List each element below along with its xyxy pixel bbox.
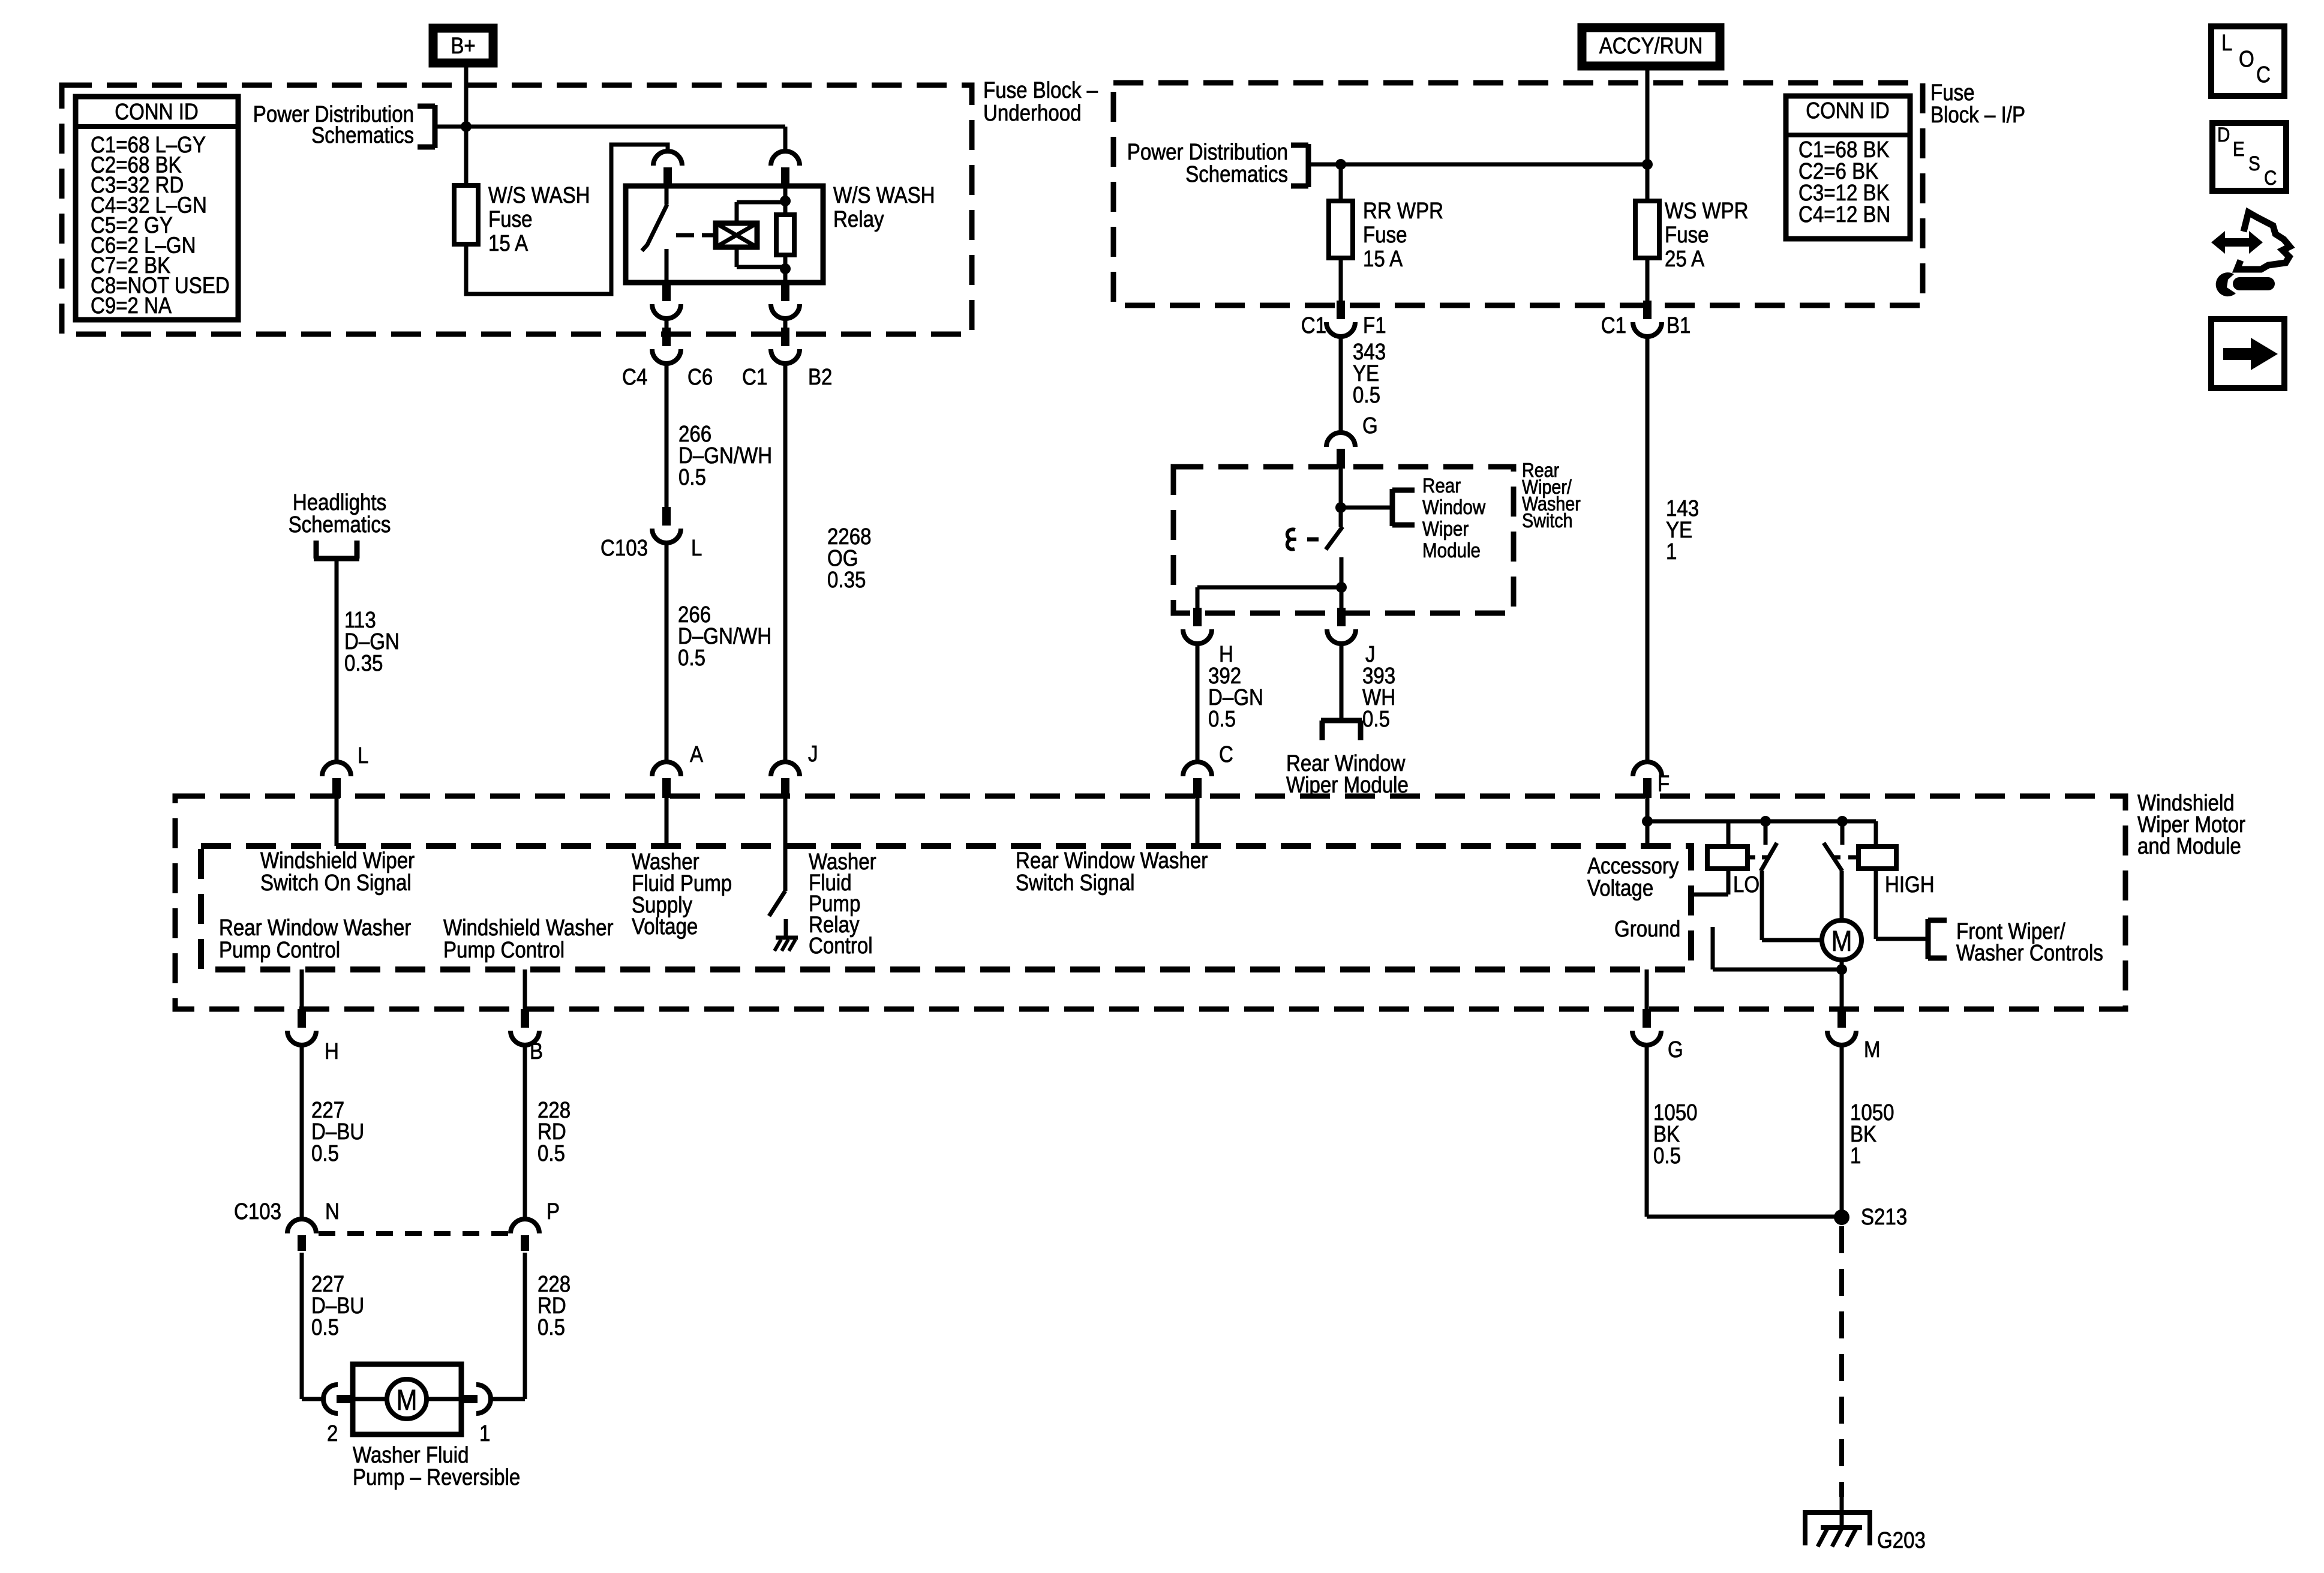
svg-text:W/S WASH: W/S WASH bbox=[833, 182, 935, 208]
svg-text:A: A bbox=[690, 742, 703, 767]
svg-text:M: M bbox=[1831, 924, 1852, 957]
svg-text:C: C bbox=[2256, 62, 2271, 88]
svg-text:C4=12 BN: C4=12 BN bbox=[1798, 202, 1890, 227]
svg-text:Ground: Ground bbox=[1614, 916, 1680, 942]
svg-text:0.5: 0.5 bbox=[1353, 382, 1380, 408]
svg-text:0.5: 0.5 bbox=[678, 645, 705, 671]
svg-text:RR WPR: RR WPR bbox=[1363, 198, 1443, 224]
svg-text:Switch: Switch bbox=[1522, 509, 1572, 532]
svg-text:Schematics: Schematics bbox=[1185, 161, 1288, 187]
svg-text:C103: C103 bbox=[600, 535, 648, 561]
svg-text:Voltage: Voltage bbox=[1587, 875, 1653, 901]
svg-text:C1: C1 bbox=[742, 364, 767, 390]
svg-text:Relay: Relay bbox=[833, 206, 884, 232]
svg-text:Schematics: Schematics bbox=[289, 512, 391, 538]
svg-text:Fuse: Fuse bbox=[1363, 222, 1407, 248]
svg-text:Block – I/P: Block – I/P bbox=[1930, 102, 2025, 128]
svg-text:and Module: and Module bbox=[2137, 833, 2241, 859]
svg-text:D: D bbox=[2217, 123, 2230, 146]
svg-text:L: L bbox=[2221, 30, 2232, 56]
svg-text:M: M bbox=[397, 1383, 418, 1416]
svg-text:0.5: 0.5 bbox=[678, 464, 706, 490]
svg-text:C9=2 NA: C9=2 NA bbox=[91, 293, 172, 319]
svg-text:J: J bbox=[808, 741, 818, 767]
svg-text:Control: Control bbox=[809, 933, 873, 959]
svg-text:L: L bbox=[691, 535, 702, 561]
svg-text:G: G bbox=[1362, 413, 1378, 439]
svg-text:H: H bbox=[325, 1038, 339, 1064]
svg-text:0.5: 0.5 bbox=[1362, 706, 1390, 732]
svg-text:M: M bbox=[1864, 1037, 1881, 1062]
svg-text:15 A: 15 A bbox=[488, 230, 528, 256]
svg-text:Fuse: Fuse bbox=[488, 206, 532, 232]
svg-text:1: 1 bbox=[479, 1421, 490, 1446]
svg-text:B1: B1 bbox=[1667, 313, 1691, 338]
svg-text:Fuse: Fuse bbox=[1665, 222, 1709, 248]
svg-text:B: B bbox=[530, 1038, 543, 1064]
svg-text:1: 1 bbox=[1850, 1143, 1861, 1169]
svg-text:0.35: 0.35 bbox=[344, 650, 383, 676]
svg-text:G203: G203 bbox=[1877, 1527, 1926, 1553]
svg-text:F: F bbox=[1658, 771, 1670, 797]
svg-text:HIGH: HIGH bbox=[1885, 872, 1935, 897]
svg-text:15 A: 15 A bbox=[1363, 246, 1403, 272]
svg-text:0.5: 0.5 bbox=[1653, 1143, 1681, 1169]
svg-text:0.5: 0.5 bbox=[311, 1140, 339, 1166]
svg-text:O: O bbox=[2239, 46, 2254, 72]
svg-text:ACCY/RUN: ACCY/RUN bbox=[1599, 33, 1703, 59]
svg-text:Switch Signal: Switch Signal bbox=[1016, 870, 1134, 896]
svg-text:0.35: 0.35 bbox=[827, 567, 866, 593]
svg-text:0.5: 0.5 bbox=[538, 1140, 565, 1166]
svg-text:L: L bbox=[358, 743, 368, 769]
svg-text:Fuse Block –: Fuse Block – bbox=[983, 77, 1098, 103]
svg-text:E: E bbox=[2233, 137, 2245, 160]
svg-text:Wiper: Wiper bbox=[1422, 517, 1469, 540]
svg-text:N: N bbox=[325, 1199, 340, 1224]
svg-text:C4: C4 bbox=[622, 364, 647, 390]
svg-text:B+: B+ bbox=[451, 33, 475, 59]
svg-text:S: S bbox=[2248, 152, 2260, 175]
svg-text:Pump Control: Pump Control bbox=[443, 937, 565, 963]
svg-text:Switch On Signal: Switch On Signal bbox=[260, 870, 412, 896]
svg-text:Underhood: Underhood bbox=[983, 100, 1082, 126]
svg-text:F1: F1 bbox=[1363, 313, 1386, 338]
svg-text:S213: S213 bbox=[1861, 1204, 1907, 1230]
svg-text:C: C bbox=[2264, 166, 2277, 189]
svg-text:Voltage: Voltage bbox=[632, 914, 698, 939]
svg-text:Pump – Reversible: Pump – Reversible bbox=[353, 1464, 520, 1490]
svg-text:C1: C1 bbox=[1301, 313, 1326, 338]
svg-text:C1: C1 bbox=[1601, 313, 1626, 338]
svg-text:B2: B2 bbox=[808, 364, 832, 390]
svg-text:LO: LO bbox=[1733, 872, 1759, 897]
svg-text:0.5: 0.5 bbox=[538, 1314, 565, 1340]
svg-text:C: C bbox=[1219, 742, 1233, 767]
svg-text:G: G bbox=[1668, 1037, 1683, 1062]
svg-text:Module: Module bbox=[1422, 539, 1481, 562]
svg-text:C103: C103 bbox=[234, 1199, 281, 1224]
svg-text:1: 1 bbox=[1666, 539, 1677, 565]
svg-text:Window: Window bbox=[1422, 496, 1486, 518]
svg-text:CONN ID: CONN ID bbox=[1806, 98, 1890, 124]
svg-text:2: 2 bbox=[327, 1421, 338, 1446]
svg-text:0.5: 0.5 bbox=[311, 1314, 339, 1340]
svg-text:W/S WASH: W/S WASH bbox=[488, 182, 590, 208]
svg-text:WS WPR: WS WPR bbox=[1665, 198, 1749, 224]
svg-text:25 A: 25 A bbox=[1665, 246, 1704, 272]
svg-text:Washer Controls: Washer Controls bbox=[1956, 940, 2103, 966]
svg-text:CONN ID: CONN ID bbox=[115, 99, 199, 125]
svg-text:Rear: Rear bbox=[1422, 474, 1461, 497]
svg-text:C6: C6 bbox=[687, 364, 713, 390]
svg-text:0.5: 0.5 bbox=[1208, 706, 1236, 732]
svg-text:P: P bbox=[547, 1199, 560, 1224]
svg-text:Pump Control: Pump Control bbox=[219, 937, 340, 963]
svg-text:Schematics: Schematics bbox=[311, 122, 414, 148]
